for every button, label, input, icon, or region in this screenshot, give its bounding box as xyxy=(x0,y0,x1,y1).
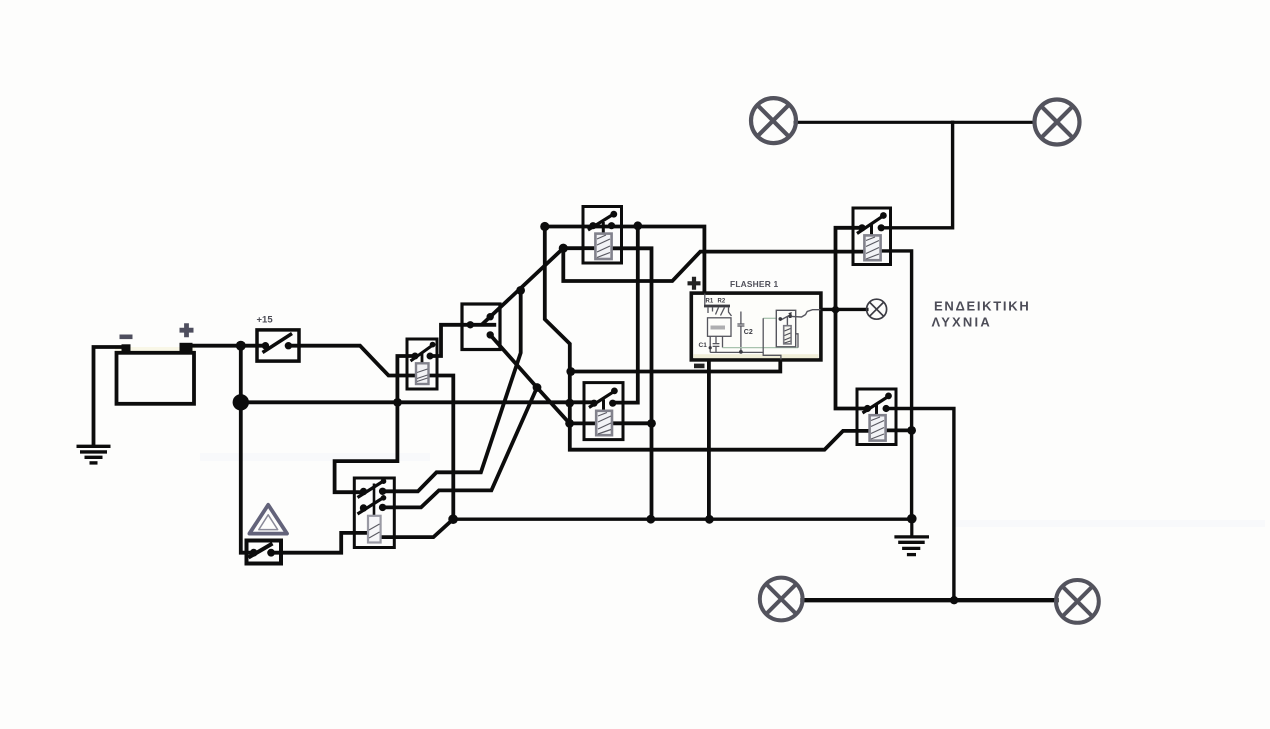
node B xyxy=(533,383,542,392)
IC U2 xyxy=(708,318,732,337)
wire +15 switch to ignition relay coil and down to ground bus xyxy=(291,346,453,520)
flasher output squiggle xyxy=(792,310,821,317)
node ground bus 1 xyxy=(448,514,458,524)
svg-text:C2: C2 xyxy=(744,329,753,336)
relay K2 (hazard relay, double pole) xyxy=(354,478,394,548)
node coil link left xyxy=(559,244,568,253)
ground (main, right) xyxy=(894,537,929,555)
node minus rail left xyxy=(566,367,575,376)
wire top lamps line xyxy=(795,121,1035,124)
wire supply to top-left relay and flasher plus xyxy=(545,227,705,294)
wire bottom-left relay coil right stub xyxy=(612,421,652,425)
wire left relay coil right to ground bus xyxy=(612,248,652,519)
wire node A down to hazard pushbutton xyxy=(241,346,252,553)
node coil rail left xyxy=(565,419,574,428)
flasher unit U1 FLASHER 1 xyxy=(688,277,821,366)
relay K1 (ignition relay) xyxy=(407,339,437,389)
flasher internals xyxy=(704,294,798,360)
node indicator (diamond) xyxy=(830,305,840,315)
node blade line xyxy=(516,286,525,295)
wire hazard relay upper pole to turn-switch blade node xyxy=(383,290,521,491)
capacitor C1 xyxy=(713,336,720,352)
wire main bus y=402 xyxy=(241,400,594,404)
node supply corner xyxy=(540,222,549,231)
wire flasher output to indicator lamp xyxy=(821,308,867,311)
wire ignition relay contact to turn switch common xyxy=(430,325,494,356)
wire turn switch blade diagonal xyxy=(483,248,563,323)
wire hazard relay lower pole to node B xyxy=(383,388,537,508)
ground (battery) xyxy=(77,446,111,463)
wire indicator node vertical to both right relays xyxy=(836,228,868,409)
svg-text:ΕΝΔΕΙΚΤΙΚΗ: ΕΝΔΕΙΚΤΙΚΗ xyxy=(934,299,1030,314)
battery B1 xyxy=(117,323,195,404)
label indicator lamp text xyxy=(932,299,1031,330)
wire node B to relay coils junction xyxy=(537,388,570,424)
wire bottom-right relay coil right stub xyxy=(886,428,912,432)
wire battery minus to ground xyxy=(94,347,126,445)
wire turn-switch lower contact to node B xyxy=(490,335,537,388)
relay K4 (top-right) xyxy=(853,208,891,265)
wire flasher minus rail y=371.5 xyxy=(570,360,781,372)
capacitor C2 xyxy=(737,312,744,352)
wire ground bus xyxy=(453,518,912,521)
wire bottom-left relay coil left stub xyxy=(570,421,597,425)
relay K6 (bottom-right) xyxy=(857,389,896,445)
wire relay coil link rail to flasher feed side xyxy=(563,248,864,281)
node bottom coil right xyxy=(647,419,656,428)
wire ground 2 lead xyxy=(910,519,913,536)
switch S2 (turn signal switch) xyxy=(462,304,500,350)
node bus / hazard feed xyxy=(393,398,402,407)
relay K3 (top-left / left turn relay) xyxy=(583,207,622,264)
switch S1 +15 (ignition) xyxy=(257,315,300,362)
wire hazard relay coil to ground bus xyxy=(381,519,454,537)
wire battery plus to node A xyxy=(190,344,241,348)
hazard warning triangle icon xyxy=(249,505,287,534)
node bus main (big) xyxy=(233,394,249,410)
node ground bus 3 xyxy=(705,515,714,524)
IC pins bottom / ground net xyxy=(710,336,763,352)
wire left relay coil left stub xyxy=(563,246,595,250)
wire node A to +15 switch xyxy=(241,344,263,348)
switch S3 (hazard pushbutton) xyxy=(247,541,282,564)
node bottom lamps xyxy=(950,596,958,604)
svg-text:R1: R1 xyxy=(706,299,714,305)
wire bottom-right relay contact to bottom lamps xyxy=(886,409,954,601)
flasher internal relay K7 xyxy=(776,310,820,347)
lamp L4 (bottom right) xyxy=(1056,580,1099,623)
node bus right end xyxy=(565,399,574,408)
wire bottom lamps line xyxy=(803,598,1057,602)
lamp L3 (bottom left) xyxy=(760,578,803,621)
node top-left relay right xyxy=(633,221,642,230)
scan tint patches xyxy=(115,347,1265,527)
node bottom-right relay coil / ground rail xyxy=(907,426,916,435)
wire flasher minus drop to ground bus xyxy=(707,360,711,520)
svg-text:C1: C1 xyxy=(699,342,708,349)
wire top contact node down to relay coil-left rail and bottom-right relay coil xyxy=(545,227,870,450)
svg-text:R2: R2 xyxy=(718,299,726,305)
lamp L2 (top right) xyxy=(1035,100,1080,145)
node A (battery plus junction) xyxy=(236,341,246,351)
svg-text:+15: +15 xyxy=(257,315,274,326)
node ground bus 2 xyxy=(646,515,655,524)
wire top-left relay contact down to bottom-left relay contact xyxy=(613,226,638,403)
node ground bus end xyxy=(907,514,917,524)
svg-text:FLASHER 1: FLASHER 1 xyxy=(730,279,778,289)
wire hazard pushbutton to hazard relay coil xyxy=(273,533,369,553)
wire top-right relay coil to ground bus xyxy=(881,251,912,519)
lamp L1 (top left) xyxy=(751,98,796,143)
flasher internal labels xyxy=(699,299,753,350)
resistor R1 R2 block xyxy=(704,294,706,305)
lamp L5 (indicator lamp) xyxy=(867,299,887,319)
svg-text:ΛΥΧΝΙΑ: ΛΥΧΝΙΑ xyxy=(932,315,992,330)
wire top-right relay contact to top lamps xyxy=(881,122,952,228)
wire ignition relay switch common via bus node to hazard relay upper contact xyxy=(335,356,415,492)
relay K5 (bottom-left) xyxy=(584,383,623,440)
